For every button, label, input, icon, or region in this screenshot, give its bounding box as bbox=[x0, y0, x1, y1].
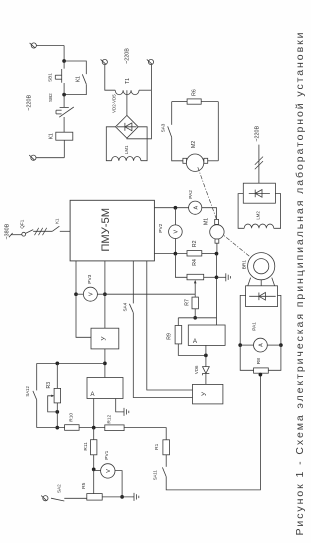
rectifier VD7 block bbox=[246, 286, 278, 307]
tachogenerator BR1 bbox=[248, 253, 275, 280]
svg-text:R1: R1 bbox=[154, 443, 160, 449]
wire bbox=[139, 89, 151, 91]
node PV2 tap lower bbox=[174, 252, 178, 256]
wires BR1 to rectifier bbox=[248, 278, 251, 286]
node PA1 right bbox=[279, 343, 283, 347]
svg-text:SA12: SA12 bbox=[25, 386, 30, 397]
svg-text:LM1: LM1 bbox=[124, 145, 129, 154]
wire dc tabs bbox=[240, 295, 245, 345]
svg-text:SA11: SA11 bbox=[153, 469, 158, 480]
svg-text:VD2-VD5: VD2-VD5 bbox=[111, 94, 116, 113]
switch SA4 bbox=[129, 304, 133, 313]
resistor R7 bbox=[192, 297, 198, 309]
terminal X3 ~220V mains bbox=[102, 59, 107, 64]
wire bbox=[36, 45, 64, 47]
resistor R10 bbox=[65, 425, 80, 431]
resistor R11 bbox=[91, 440, 97, 455]
svg-text:PA1: PA1 bbox=[252, 322, 258, 331]
svg-text:R2: R2 bbox=[192, 240, 198, 247]
wire bbox=[204, 276, 217, 278]
svg-text:М2: М2 bbox=[191, 141, 197, 148]
svg-text:SB1: SB1 bbox=[47, 73, 52, 82]
wire bbox=[208, 160, 219, 162]
resistor R9 bbox=[175, 326, 182, 344]
pushbutton SB2 (stop, NC) bbox=[63, 95, 65, 108]
bridge rectifier VD2-VD5 (diamond) bbox=[116, 115, 139, 138]
wire armature - bbox=[154, 253, 187, 255]
wire PMU pin3 / SA4 bbox=[132, 261, 134, 304]
svg-text:~220В: ~220В bbox=[255, 126, 261, 142]
wiper R3 bbox=[48, 396, 58, 412]
svg-text:R11: R11 bbox=[83, 442, 89, 451]
wire bbox=[93, 399, 95, 428]
svg-text:R6: R6 bbox=[191, 89, 197, 96]
svg-text:М1: М1 bbox=[203, 218, 209, 225]
wire bbox=[37, 427, 65, 429]
wire R8 tap bbox=[259, 373, 261, 374]
wire K1 contact branch bbox=[64, 61, 86, 74]
resistor R12 bbox=[105, 425, 124, 431]
node PV1 left bbox=[92, 468, 96, 472]
terminal X2 ~220V control return bbox=[31, 155, 36, 160]
wire bbox=[172, 101, 187, 103]
wire bbox=[104, 349, 106, 378]
wire winding tap to bridge bbox=[126, 90, 128, 115]
node PV2 tap upper bbox=[174, 206, 178, 210]
machine M2 (exciter) bbox=[183, 158, 187, 163]
svg-text:К1: К1 bbox=[49, 133, 55, 139]
svg-text:~220В: ~220В bbox=[26, 95, 32, 111]
ammeter PA2 bbox=[189, 201, 202, 214]
zener diode VD6 bbox=[205, 355, 207, 366]
node R3 top bbox=[55, 362, 59, 366]
amplifier unit A2 bbox=[87, 378, 123, 399]
svg-text:R3: R3 bbox=[46, 382, 52, 389]
node R8 tap bbox=[259, 373, 263, 377]
node PV1 right bbox=[120, 495, 124, 499]
svg-text:К1: К1 bbox=[54, 218, 59, 224]
wire armature + bbox=[154, 207, 188, 209]
svg-text:R12: R12 bbox=[106, 414, 112, 423]
wire bbox=[172, 137, 183, 160]
resistor R2 bbox=[187, 251, 202, 256]
wire R7 top bbox=[194, 294, 196, 297]
node row left bbox=[103, 362, 107, 366]
node R3 wiper tie bbox=[55, 410, 59, 414]
field winding LM1 bbox=[112, 156, 141, 160]
svg-text:~380В: ~380В bbox=[5, 223, 11, 239]
svg-text:~220В: ~220В bbox=[124, 48, 130, 64]
wire bbox=[63, 140, 65, 158]
svg-text:PA2: PA2 bbox=[188, 190, 194, 199]
resistor R1 bbox=[163, 440, 170, 455]
wire bbox=[76, 294, 91, 337]
svg-text:ПМУ-5М: ПМУ-5М bbox=[100, 208, 112, 252]
svg-text:Т1: Т1 bbox=[125, 78, 131, 84]
wire bridge ac2 bbox=[127, 90, 151, 139]
magnetic amplifier unit PMU-5M bbox=[70, 200, 154, 261]
svg-text:SA3: SA3 bbox=[160, 123, 165, 132]
node R7 bottom bbox=[193, 316, 197, 320]
svg-text:BR1: BR1 bbox=[241, 260, 247, 270]
wire 2-conductor bbox=[258, 145, 260, 184]
wire to ground bbox=[116, 399, 124, 412]
wire bbox=[60, 230, 70, 232]
ground R5 bbox=[133, 493, 135, 501]
ammeter PA1 bbox=[240, 344, 253, 346]
svg-text:R8: R8 bbox=[256, 358, 262, 364]
svg-text:R4: R4 bbox=[192, 259, 198, 266]
node junction below SB1 bbox=[62, 93, 66, 97]
wire bbox=[124, 428, 166, 440]
field winding LM2 housing bbox=[238, 194, 244, 229]
svg-text:К1: К1 bbox=[75, 76, 81, 82]
wire bbox=[194, 309, 196, 318]
wire bbox=[201, 101, 218, 103]
svg-text:QF1: QF1 bbox=[19, 219, 24, 228]
svg-text:R10: R10 bbox=[68, 413, 74, 422]
svg-text:PV1: PV1 bbox=[104, 450, 110, 459]
node ground tie bbox=[215, 275, 219, 279]
node M1 minus bbox=[215, 252, 219, 256]
amplifier unit U1 bbox=[91, 328, 119, 349]
voltmeter PV2 bbox=[174, 208, 176, 225]
node R11 top bbox=[92, 426, 96, 430]
wire bbox=[175, 254, 187, 278]
wire bbox=[102, 496, 134, 498]
svg-text:V: V bbox=[174, 230, 180, 234]
voltmeter PV3 bbox=[76, 293, 83, 295]
amplifier unit A1 bbox=[188, 325, 225, 345]
mechanical shaft coupling M2-M1-BR1 bbox=[198, 167, 261, 265]
shunt R8 bbox=[240, 345, 253, 370]
svg-text:Рисунок 1 - Схема электрическа: Рисунок 1 - Схема электрическая принципи… bbox=[294, 32, 306, 535]
wire bbox=[105, 65, 115, 91]
wire bbox=[202, 208, 217, 220]
transformer T1 primary winding bbox=[115, 90, 139, 95]
three-phase slash marks bbox=[35, 228, 39, 235]
wire R9 bbox=[177, 318, 179, 326]
node A1 out bbox=[204, 354, 208, 358]
amplifier unit U3 bbox=[193, 384, 223, 404]
svg-text:A: A bbox=[194, 206, 200, 210]
ground A2 bbox=[123, 408, 125, 416]
pushbutton SB1 (start, NO) bbox=[63, 61, 65, 69]
node junction above SB1 bbox=[62, 59, 66, 63]
relay coil K1 bbox=[56, 132, 73, 140]
switch SA2 bbox=[43, 496, 48, 501]
svg-text:A: A bbox=[259, 343, 265, 347]
wire PMU pin2 bbox=[104, 261, 106, 294]
wire A1 bottom pin bbox=[205, 345, 207, 355]
node PV3 right bbox=[103, 292, 107, 296]
svg-text:SB2: SB2 bbox=[48, 93, 53, 102]
node PA1 left bbox=[238, 343, 242, 347]
voltmeter PV1 bbox=[94, 469, 101, 471]
wire 3-phase bbox=[33, 230, 52, 232]
resistor R6 bbox=[187, 99, 201, 104]
wire PMU pin4 to U3 bbox=[147, 261, 193, 390]
terminal X4 ~220V mains bbox=[148, 59, 153, 64]
circuit breaker QF1 bbox=[9, 233, 13, 237]
wire bridge dc+ to LM1 bbox=[138, 127, 147, 161]
contactor main contact K1 bbox=[52, 226, 59, 231]
svg-text:PV2: PV2 bbox=[158, 223, 164, 232]
wire bbox=[216, 243, 218, 253]
wire row bbox=[37, 362, 105, 364]
switch SA1.2 bbox=[36, 363, 38, 390]
svg-text:V: V bbox=[89, 292, 95, 296]
ground bbox=[217, 276, 226, 278]
node R3 bottom bbox=[55, 426, 59, 430]
wire feedback row bbox=[105, 293, 195, 295]
svg-text:R5: R5 bbox=[81, 482, 87, 488]
switch SA3 bbox=[168, 126, 172, 137]
wire bridge dc- to LM1 bbox=[106, 127, 115, 161]
svg-text:LM2: LM2 bbox=[256, 211, 261, 220]
potentiometer R4 bbox=[187, 274, 204, 280]
wire bbox=[166, 375, 260, 490]
svg-text:PV3: PV3 bbox=[87, 274, 93, 283]
svg-text:R7: R7 bbox=[185, 299, 191, 306]
potentiometer R5 bbox=[87, 494, 102, 501]
svg-text:VD6: VD6 bbox=[194, 365, 199, 374]
svg-text:V: V bbox=[106, 469, 112, 473]
terminal X1 ~220V control supply bbox=[31, 43, 36, 48]
motor M1 bbox=[215, 219, 219, 224]
svg-text:SA4: SA4 bbox=[123, 302, 128, 311]
switch SA1.1 bbox=[162, 467, 166, 476]
contact K1 (holding) bbox=[82, 74, 86, 84]
node PV3 left bbox=[74, 292, 78, 296]
rheostat R3 bbox=[56, 363, 58, 388]
wiper arrow of R4 bbox=[194, 282, 196, 295]
rectifier VD1 block bbox=[243, 183, 275, 203]
svg-text:R9: R9 bbox=[166, 333, 172, 340]
wire PMU pin1 bbox=[75, 261, 77, 294]
svg-text:SA2: SA2 bbox=[57, 484, 62, 493]
